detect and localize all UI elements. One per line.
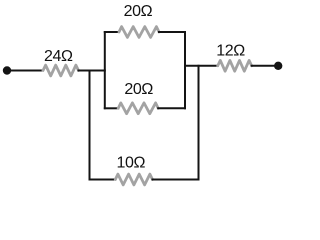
svg-text:24Ω: 24Ω <box>44 48 73 65</box>
svg-text:12Ω: 12Ω <box>216 42 245 59</box>
svg-text:10Ω: 10Ω <box>117 154 146 171</box>
svg-text:20Ω: 20Ω <box>124 3 153 20</box>
svg-text:20Ω: 20Ω <box>124 81 153 98</box>
